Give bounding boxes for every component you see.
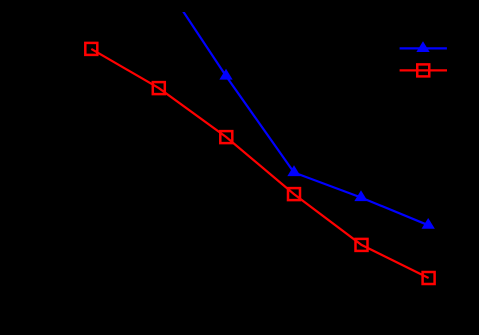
blue series line (181, 8, 428, 225)
red square marker 2 (153, 82, 165, 94)
legend blue triangle marker (416, 41, 429, 52)
red square marker 6 (423, 272, 435, 284)
red square marker 4 (288, 188, 300, 200)
legend red square marker (417, 64, 429, 76)
blue triangle marker 4 (422, 218, 435, 229)
blue triangle marker 1 (219, 69, 232, 80)
blue triangle marker 2 (287, 165, 300, 176)
red square marker 5 (356, 239, 368, 251)
legend red sample line (400, 69, 447, 71)
red square marker 1 (85, 43, 97, 55)
blue triangle marker 3 (354, 190, 367, 201)
red series line (91, 49, 428, 278)
legend blue sample line (400, 47, 447, 49)
red square marker 3 (220, 131, 232, 143)
